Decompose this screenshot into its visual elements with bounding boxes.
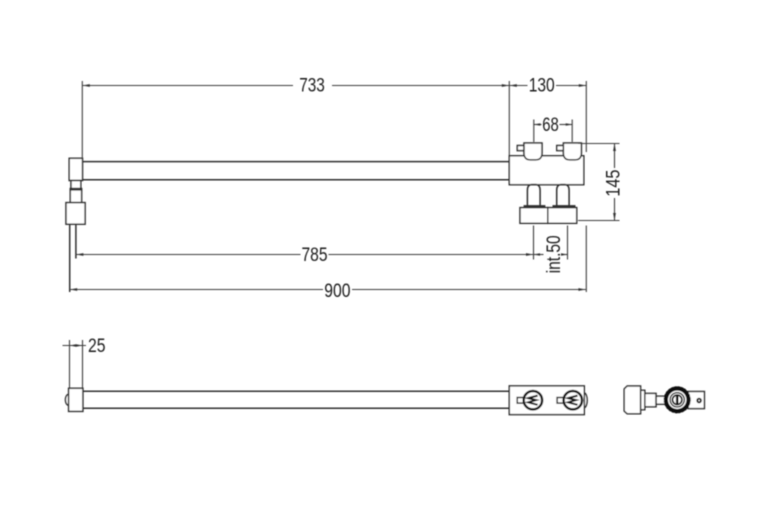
svg-text:733: 733 <box>299 76 325 97</box>
svg-text:785: 785 <box>302 245 328 266</box>
svg-text:68: 68 <box>542 115 559 136</box>
svg-text:25: 25 <box>88 336 106 357</box>
svg-text:900: 900 <box>324 281 350 302</box>
svg-text:145: 145 <box>604 170 625 197</box>
svg-text:130: 130 <box>529 76 555 97</box>
svg-text:int.50: int.50 <box>544 235 565 273</box>
